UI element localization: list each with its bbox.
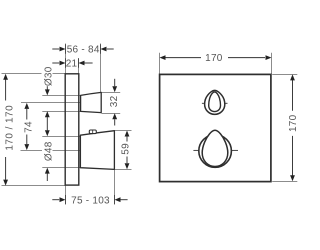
svg-text:21: 21 <box>66 59 78 70</box>
bottom knob (side view) <box>80 131 114 170</box>
dimension 170 (front top) <box>166 57 266 59</box>
svg-text:56 - 84: 56 - 84 <box>67 45 100 56</box>
top knob outer ring (front view) <box>205 90 225 114</box>
plate bottom extension line <box>2 185 66 187</box>
square right corner extension up <box>271 53 273 74</box>
dimension 56-84 <box>52 48 113 50</box>
extension and center lines (side view) <box>2 44 132 205</box>
top knob center line <box>21 102 81 104</box>
O30 extension lines (top knob back corners) <box>42 95 80 97</box>
svg-text:59: 59 <box>121 143 132 155</box>
concealed valve plate (side view, fill only) <box>65 74 79 185</box>
safety stop button on bottom knob <box>89 130 96 134</box>
56-84 right vertical extension <box>100 44 102 93</box>
plate top extension line <box>2 73 42 75</box>
bottom knob center tick left <box>193 149 201 151</box>
plate outline (side view) <box>65 74 79 185</box>
32 extension lines (top knob front corners) <box>102 92 121 94</box>
dimension O30 <box>46 86 48 130</box>
front view extension lines <box>160 53 298 182</box>
square top-right extension right <box>272 74 297 76</box>
dimension 32 <box>114 79 116 126</box>
wall plane vertical extension (56-84 / 21 left) <box>65 44 67 74</box>
dimension 75-103 <box>52 199 127 201</box>
svg-text:170: 170 <box>288 114 299 132</box>
75-103 left vertical extension <box>65 186 67 205</box>
top knob inner grip egg (front view) <box>209 92 221 112</box>
top knob center tick left <box>202 102 207 104</box>
svg-text:Ø30: Ø30 <box>43 66 54 86</box>
bottom knob inner grip egg (front view) <box>202 130 228 166</box>
svg-text:170 / 170: 170 / 170 <box>4 105 15 151</box>
O48 extension lines (bottom knob back corners) <box>42 136 80 138</box>
svg-text:32: 32 <box>109 95 120 107</box>
dimension 59 <box>126 137 128 164</box>
top knob center tick right <box>223 102 227 104</box>
dimension 170/170 (left) <box>5 80 7 180</box>
square left corner extension up <box>159 53 161 74</box>
square face plate (front view) <box>160 74 271 181</box>
svg-text:Ø48: Ø48 <box>44 141 55 161</box>
dimension 170 (front right) <box>292 80 294 176</box>
75-103 right vertical extension <box>114 170 116 205</box>
bottom knob center tick right <box>229 149 238 151</box>
dimension 21 <box>52 62 92 64</box>
svg-text:74: 74 <box>23 121 34 133</box>
bottom knob center line <box>21 150 43 152</box>
square bottom-right extension right <box>272 181 297 183</box>
dark ticks at dimension terminations <box>66 44 115 204</box>
dimension 74 <box>26 109 28 144</box>
dimension O48 <box>46 174 48 182</box>
59 extension lines (bottom knob front corners) <box>115 130 132 132</box>
svg-text:75 - 103: 75 - 103 <box>71 195 110 206</box>
top knob (side view) <box>81 92 102 112</box>
21 right vertical extension <box>78 58 80 73</box>
svg-text:170: 170 <box>205 53 223 64</box>
bottom knob outer ring (front view) <box>199 135 232 168</box>
